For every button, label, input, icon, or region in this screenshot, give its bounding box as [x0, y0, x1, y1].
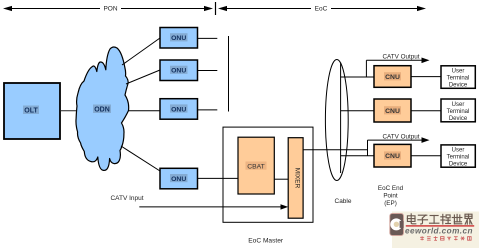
eeworld logo chinese title — [407, 214, 415, 224]
svg-text:ONU: ONU — [171, 68, 186, 75]
svg-text:EoC End: EoC End — [378, 185, 404, 192]
svg-text:ODN: ODN — [94, 107, 110, 114]
svg-text:OLT: OLT — [24, 108, 38, 115]
svg-text:User: User — [452, 148, 465, 154]
svg-text:ONU: ONU — [171, 176, 186, 183]
eeworld logo red underline — [406, 225, 474, 226]
UTD1 box — [441, 66, 475, 89]
svg-text:ONU: ONU — [171, 35, 186, 42]
svg-text:Device: Device — [449, 116, 468, 122]
cable bus line — [340, 63, 342, 174]
wire MIXER to cable — [303, 149, 367, 151]
svg-text:Terminal: Terminal — [447, 109, 470, 115]
CATV Output label row1 — [366, 54, 429, 78]
svg-text:CATV Output: CATV Output — [383, 133, 420, 140]
wire cloud to ONU4 — [121, 146, 160, 171]
CATV Output label row3 — [368, 133, 430, 155]
UTD3 box — [441, 145, 475, 168]
svg-text:CBAT: CBAT — [247, 163, 265, 170]
EoC Master box — [223, 127, 313, 222]
svg-text:(EP): (EP) — [384, 200, 397, 207]
svg-text:Cable: Cable — [335, 198, 352, 205]
wire CNU3 to UTD3 — [411, 155, 441, 157]
svg-text:Device: Device — [449, 83, 468, 89]
svg-text:User: User — [452, 69, 465, 75]
svg-text:Point: Point — [383, 192, 398, 199]
wire cloud to ONU3 — [128, 110, 160, 112]
cloud ODN — [76, 47, 129, 170]
wire stub ONU2 — [198, 70, 218, 72]
divider tick between PON and EoC — [215, 2, 217, 15]
ONU1 box — [160, 28, 198, 49]
svg-text:ONU: ONU — [171, 106, 186, 113]
svg-text:CATV Input: CATV Input — [110, 195, 143, 202]
svg-text:CNU: CNU — [385, 74, 400, 81]
eeworld logo slogan — [420, 236, 424, 240]
UTD2 box — [441, 99, 475, 122]
wire CBAT to MIXER — [274, 178, 288, 180]
EoC End Point (EP) label — [378, 185, 404, 207]
CBAT box — [238, 137, 274, 194]
svg-text:EoC: EoC — [315, 6, 328, 13]
wire stub ONU3 — [198, 109, 218, 111]
svg-text:Device: Device — [449, 162, 468, 168]
wire tap to CNU1 — [341, 76, 374, 78]
svg-text:CNU: CNU — [385, 108, 400, 115]
wire OLT to ODN cloud — [60, 110, 80, 112]
CNU2 box — [374, 99, 411, 122]
ONU4 box — [160, 168, 198, 189]
MIXER box — [288, 138, 303, 219]
svg-text:User: User — [452, 102, 465, 108]
wire ONU4 to CBAT — [198, 177, 239, 179]
svg-text:CATV Output: CATV Output — [383, 54, 420, 61]
CATV input arrow wire — [139, 204, 288, 209]
svg-text:eeworld.com.cn: eeworld.com.cn — [405, 227, 473, 236]
wire cloud to ONU2 — [126, 70, 160, 84]
eeworld logo mark — [390, 214, 404, 236]
OLT box — [4, 83, 60, 139]
wire tap to CNU3 — [341, 155, 374, 157]
EoC span arrow — [218, 6, 426, 11]
svg-text:EoC Master: EoC Master — [248, 238, 284, 245]
cable ellipse — [325, 60, 348, 181]
vertical bus line — [228, 36, 230, 112]
svg-text:PON: PON — [103, 6, 117, 13]
wire CNU2 to UTD2 — [411, 110, 441, 112]
wire CNU1 to UTD1 — [411, 76, 441, 78]
svg-text:MIXER: MIXER — [294, 168, 301, 189]
eeworld logo background — [392, 212, 479, 248]
wire stub ONU1 — [198, 37, 218, 39]
CNU3 box — [374, 144, 411, 167]
svg-text:Terminal: Terminal — [447, 155, 470, 161]
wire tap to CNU2 — [341, 110, 374, 112]
svg-text:CNU: CNU — [385, 153, 400, 160]
svg-text:Terminal: Terminal — [447, 76, 470, 82]
PON span arrow — [3, 6, 213, 11]
CNU1 box — [374, 66, 411, 88]
wire cloud to ONU1 — [122, 38, 160, 65]
ONU2 box — [160, 60, 198, 81]
ONU3 box — [160, 99, 198, 120]
